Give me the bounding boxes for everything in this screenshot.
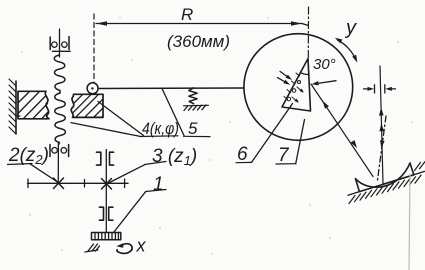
- incoming ray arrow a: [280, 71, 289, 78]
- dimension arrow left: [96, 21, 107, 26]
- svg-text:5: 5: [188, 119, 198, 138]
- ground under rack: [85, 244, 100, 252]
- shaft mid tick: [84, 180, 86, 188]
- dimension extension dash-dot centerline right: [307, 7, 309, 58]
- ray mirror to film: [380, 66, 383, 184]
- leader 1: [114, 192, 146, 233]
- underline 6: [236, 161, 252, 163]
- damper spring small: [189, 88, 197, 104]
- shaft end tick left: [27, 179, 29, 188]
- lower guide left bar: [49, 145, 51, 157]
- dimension arrow right: [291, 21, 302, 26]
- lower guide roller 1: [52, 148, 58, 154]
- underline 4: [140, 135, 179, 138]
- damper ground line: [184, 104, 209, 107]
- dimension line R: [96, 23, 302, 25]
- wall hatching: [9, 79, 16, 134]
- film plane symbol: [364, 88, 370, 90]
- wall foot: [16, 115, 20, 117]
- svg-text:x: x: [136, 236, 147, 256]
- spring wavy rod lower: [55, 93, 66, 145]
- svg-text:R: R: [181, 5, 193, 24]
- svg-text:6: 6: [237, 144, 248, 165]
- rack (drum 1): [92, 233, 121, 240]
- roller on block: [87, 83, 98, 94]
- incoming ray arrow b: [278, 78, 287, 83]
- prism hypotenuse hatching: [284, 73, 300, 100]
- spring wavy rod upper: [54, 55, 65, 93]
- leader 2: [30, 164, 58, 182]
- dimension extension dashed line left: [93, 14, 95, 83]
- vertical shaft: [105, 150, 107, 233]
- underline 2: [8, 164, 33, 165]
- rod (horizontal link to drum): [98, 87, 244, 90]
- upper guide roller 1: [52, 42, 57, 47]
- upper guide roller 2: [62, 42, 67, 47]
- bracket gear upper ]: [97, 152, 101, 165]
- rod to gear: [57, 144, 59, 183]
- mirror support hatching: [349, 162, 425, 204]
- mirror support line extensions: [414, 171, 425, 174]
- gear cross right (z1): [102, 179, 112, 190]
- prism internal marks: [292, 89, 296, 93]
- svg-text:30°: 30°: [313, 56, 336, 73]
- block right hatching: [73, 94, 103, 117]
- damper ground hatching: [184, 105, 206, 111]
- underline 1: [146, 190, 167, 192]
- upper guide crossbar: [52, 50, 70, 52]
- svg-text:y: y: [344, 17, 357, 39]
- bracket gear lower [: [109, 207, 113, 220]
- prism triangle 7: [282, 59, 311, 112]
- mirror concave surface: [356, 163, 411, 187]
- leader 6: [252, 104, 293, 163]
- svg-text:7: 7: [278, 145, 290, 166]
- underline 3: [145, 162, 167, 165]
- bracket gear upper [: [110, 152, 114, 165]
- wall: [15, 81, 17, 134]
- dimension hook to centerline: [302, 24, 308, 26]
- leader 4a to block: [98, 102, 144, 136]
- 30 degree arc: [300, 72, 308, 74]
- svg-text:(360мм): (360мм): [167, 32, 230, 51]
- leader 4b to spring: [71, 123, 140, 137]
- underline 7: [276, 163, 296, 165]
- mirror 6 body: [356, 163, 414, 192]
- drum circle: [244, 34, 353, 141]
- upper guide left bar: [49, 37, 51, 50]
- lower guide roller 2: [61, 148, 67, 154]
- rotation arrow x: [117, 244, 132, 254]
- lower guide right bar: [68, 145, 70, 157]
- mirror axis dash-dot: [378, 116, 387, 180]
- block right (mass): [71, 94, 103, 117]
- gear cross left (z2): [54, 178, 64, 189]
- oscillation arrow y: [338, 40, 357, 60]
- faint page fold line: [409, 174, 410, 270]
- upper guide right bar: [68, 37, 70, 50]
- svg-text:4(к,φ): 4(к,φ): [142, 119, 179, 138]
- leader 3: [108, 165, 145, 184]
- leader 7: [296, 120, 305, 164]
- exit ray arrow pointing left: [316, 81, 336, 84]
- underline 5: [184, 135, 211, 137]
- leader 5 to rod: [162, 89, 184, 136]
- ray prism to mirror: [311, 84, 373, 177]
- block left (mass on wall): [18, 91, 49, 119]
- svg-text:3 (z1): 3 (z1): [152, 146, 197, 168]
- rack hatching: [95, 233, 118, 240]
- shaft horizontal: [28, 182, 129, 184]
- svg-text:1: 1: [153, 174, 164, 195]
- shaft end tick right: [124, 179, 126, 188]
- bracket gear lower ]: [99, 207, 103, 220]
- block left hatching: [18, 92, 48, 119]
- upper guide symbol rod: [59, 29, 61, 57]
